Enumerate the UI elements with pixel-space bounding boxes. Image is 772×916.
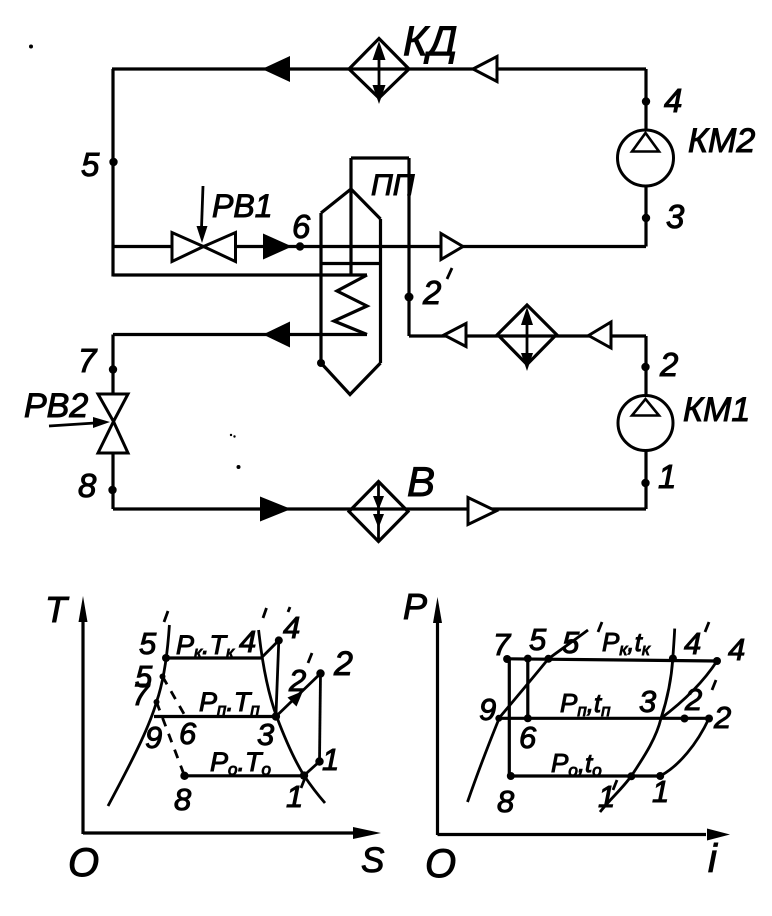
svg-text:7: 7: [493, 627, 512, 662]
svg-text:4: 4: [664, 82, 682, 119]
intercooler diamond: [498, 305, 557, 365]
P-i point 5 dot: [524, 655, 532, 663]
P-i saturation vapour curve: [600, 629, 675, 812]
svg-text:Pп.Tп: Pп.Tп: [199, 687, 260, 719]
T-S dashed throttling 7-8: [157, 702, 185, 776]
P-i vertical axis: [436, 608, 439, 835]
svg-text:2: 2: [422, 274, 441, 311]
svg-text:1: 1: [598, 779, 615, 814]
P-i point 2 dot: [705, 715, 713, 723]
svg-text:2: 2: [684, 682, 702, 717]
svg-text:5: 5: [529, 622, 547, 657]
evaporator В inner arrows: [373, 484, 384, 539]
T-S label 5' prime: [164, 611, 168, 622]
P-i saturation liquid curve: [468, 630, 589, 802]
wire РВ2 to bottom corner: [111, 453, 114, 509]
T-S point 1 dot: [315, 757, 323, 765]
node 5: [109, 158, 117, 166]
P-i point 5' dot: [544, 655, 552, 663]
wire riser x=409 from КМ1 line to vessel top pipe: [407, 158, 410, 336]
T-S line 3 to 2: [276, 674, 321, 717]
P-i label 1' prime: [613, 780, 617, 790]
T-S label 2' prime: [308, 653, 312, 663]
svg-text:Pп,tп: Pп,tп: [560, 688, 611, 720]
T-S isobar Pк Tк: [166, 656, 261, 659]
T-S vertical axis arrowhead: [79, 596, 88, 622]
wire upper right vertical КМ2 branch: [644, 69, 647, 247]
T-S point 5 tick: [160, 674, 166, 680]
T-S horizontal axis: [83, 831, 356, 834]
svg-text:Pк.Tк: Pк.Tк: [176, 630, 235, 662]
svg-text:8: 8: [174, 782, 192, 817]
check valve (open triangle pointing left) on top line: [473, 57, 497, 82]
vessel top pipe vertical to apex: [349, 158, 352, 190]
vessel liquid level line: [321, 262, 381, 265]
svg-text:7: 7: [132, 677, 151, 712]
compressor КМ2: [618, 130, 674, 186]
T-S saturation dome right branch: [259, 630, 325, 803]
T-S line 4' to 4: [261, 640, 279, 658]
svg-text:3: 3: [666, 198, 685, 235]
wire coil return line y=334.5: [113, 333, 367, 336]
P-i point 2' dot: [681, 715, 689, 723]
compressor КМ1: [618, 396, 673, 451]
P-i point 8 dot: [507, 772, 515, 780]
svg-text:S: S: [361, 841, 384, 880]
T-S label 4' prime: [263, 608, 267, 618]
wire left vertical from top corner down to coil feed: [111, 69, 114, 277]
svg-text:5: 5: [562, 625, 580, 660]
P-i throttling vertical 7-8: [508, 659, 511, 776]
vessel ПП outline: [321, 189, 381, 395]
T-S isobar Pп Tп: [154, 715, 276, 718]
svg-text:ПП: ПП: [371, 169, 415, 202]
P-i label 4' prime: [705, 622, 709, 632]
svg-text:3: 3: [257, 717, 274, 752]
svg-text:4: 4: [239, 624, 256, 659]
svg-text:9: 9: [145, 720, 162, 755]
T-S label 4 flourish: [288, 607, 290, 612]
P-i throttling vertical 5-6: [526, 659, 529, 719]
P-i vertical axis arrowhead: [433, 597, 442, 623]
svg-text:4: 4: [684, 626, 701, 661]
P-i horizontal axis: [438, 833, 707, 836]
stray speck pair: [230, 434, 232, 436]
P-i point 1' dot: [627, 772, 635, 780]
P-i compression curve 3-4: [661, 661, 717, 718]
T-S line 1' to 1: [304, 762, 320, 776]
svg-text:КД: КД: [403, 17, 457, 64]
T-S point 8 dot: [180, 772, 188, 780]
svg-text:РВ1: РВ1: [212, 188, 272, 224]
svg-text:5: 5: [139, 626, 157, 661]
svg-text:1: 1: [286, 779, 303, 814]
svg-text:1: 1: [322, 742, 339, 777]
T-S isobar Pо.Tо line 8 to 1': [185, 774, 305, 777]
condenser КД diamond: [349, 39, 409, 99]
T-S point 4 dot: [275, 636, 283, 644]
svg-text:8: 8: [78, 467, 97, 504]
svg-text:КМ2: КМ2: [688, 122, 755, 160]
svg-text:i: i: [708, 837, 718, 881]
svg-text:6: 6: [519, 720, 537, 755]
svg-text:O: O: [68, 841, 99, 885]
node 1: [641, 479, 649, 487]
P-i point 4 dot: [713, 657, 721, 665]
svg-text:2: 2: [288, 663, 306, 698]
wire left vertical down to РВ2: [111, 335, 114, 395]
svg-text:6: 6: [292, 208, 311, 245]
vessel centre line from apex: [349, 189, 352, 274]
coil zigzag inside ПП: [334, 275, 367, 335]
svg-text:7: 7: [78, 342, 98, 379]
condenser КД heat double arrow: [373, 41, 386, 104]
T-S point 1' dot: [300, 771, 308, 779]
svg-text:Pо,tо: Pо,tо: [551, 748, 602, 780]
P-i point 4' dot: [669, 655, 677, 663]
T-S saturation dome left branch: [108, 625, 169, 806]
T-S dashed throttling 5-6: [163, 677, 186, 717]
P-i isobar Pк top: [507, 659, 717, 661]
svg-text:9: 9: [479, 692, 496, 727]
node 4: [642, 97, 650, 105]
P-i label 2' prime: [712, 680, 716, 690]
svg-text:2: 2: [333, 645, 353, 683]
svg-text:3: 3: [639, 684, 656, 719]
svg-text:T: T: [45, 589, 70, 630]
node 8: [108, 486, 116, 494]
P-i label 5' prime: [598, 622, 602, 632]
T-S compression line 1-2: [320, 674, 321, 762]
svg-text:O: O: [425, 842, 456, 886]
T-S vertical axis: [81, 607, 84, 834]
svg-text:4: 4: [283, 610, 300, 645]
wire coil feed line y=275: [113, 273, 367, 276]
svg-text:РВ2: РВ2: [24, 387, 88, 425]
stray speck centre: [237, 465, 241, 469]
svg-text:1: 1: [658, 458, 676, 495]
node 6: [296, 242, 304, 250]
check valve (open triangle pointing right) on vapor line to КМ2: [441, 234, 463, 260]
svg-text:5: 5: [81, 146, 100, 183]
flow arrow (filled, pointing left) on coil return: [263, 322, 290, 348]
РВ1 pointer arrow: [197, 186, 208, 243]
P-i point 9 dot: [495, 715, 502, 722]
T-S point 7 tick: [154, 699, 160, 705]
svg-text:2: 2: [713, 700, 731, 735]
check valve (open triangle pointing left) right of intercooler: [589, 322, 612, 348]
РВ2 pointer arrow: [49, 417, 110, 428]
stray speck top left: [29, 45, 33, 49]
svg-text:4: 4: [728, 632, 745, 667]
T-S point 2 dot: [316, 669, 324, 677]
wire bottom line y=509 to КМ1 riser: [113, 507, 646, 510]
P-i point 7 dot: [503, 655, 511, 663]
label 2' prime: [447, 268, 452, 279]
node 2': [405, 293, 414, 302]
node 7: [109, 365, 117, 373]
P-i isobar Pп middle: [499, 717, 709, 720]
wire liquid line y=246 from left vertical through РВ1 and vessel to КМ2 riser: [113, 245, 646, 248]
intercooler heat double arrow: [521, 307, 533, 371]
svg-text:В: В: [407, 458, 435, 505]
svg-text:Pк,tк: Pк,tк: [602, 627, 651, 659]
svg-text:2: 2: [659, 346, 678, 383]
wire right vertical КМ1 branch: [644, 336, 647, 509]
expansion valve РВ2 (vertical bowtie): [98, 394, 128, 453]
T-S point 3 dot: [272, 712, 280, 720]
T-S arrowhead on line 3-2: [288, 691, 304, 707]
P-i horizontal axis arrowhead: [707, 829, 730, 841]
wire КМ1 top line y=336: [409, 334, 646, 337]
check valve (open triangle pointing right) on bottom line: [468, 498, 496, 525]
expansion valve РВ1 (bowtie): [172, 233, 236, 262]
T-S label 1' prime: [301, 778, 305, 788]
svg-text:P: P: [403, 586, 427, 627]
svg-text:КМ1: КМ1: [683, 391, 750, 429]
T-S compression line 3-4: [276, 640, 279, 716]
svg-text:8: 8: [497, 784, 515, 819]
svg-text:1: 1: [652, 774, 669, 809]
vessel top pipe horizontal: [351, 156, 409, 159]
svg-text:6: 6: [179, 716, 197, 751]
P-i isobar Pо bottom: [511, 774, 660, 777]
T-S point 5' dot: [162, 654, 170, 662]
wire top line from node 5 corner to KM2 corner: [112, 67, 646, 70]
P-i point 6 dot: [524, 714, 532, 722]
node 3: [642, 214, 650, 222]
flow arrow (filled, pointing right) after РВ1: [263, 234, 292, 260]
T-S horizontal axis arrowhead: [353, 827, 381, 839]
node 2: [641, 363, 649, 371]
check valve (open triangle pointing left) left of intercooler: [444, 324, 466, 347]
flow arrow (filled, pointing left) on top line: [262, 56, 290, 82]
flow arrow (filled, pointing right) on bottom line: [260, 497, 291, 522]
evaporator В diamond: [349, 482, 408, 542]
P-i point 1 dot: [656, 772, 664, 780]
P-i compression curve 1-2: [660, 718, 709, 776]
node vessel bottom left: [317, 359, 325, 367]
